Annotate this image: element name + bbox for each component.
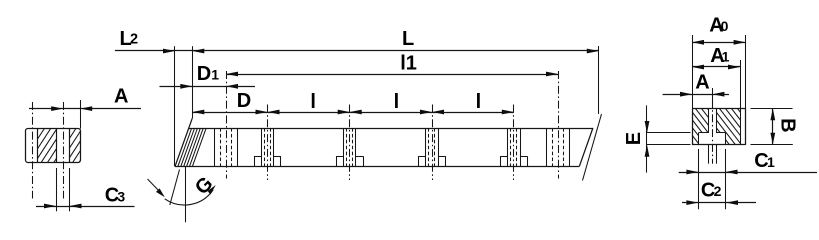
svg-text:A: A bbox=[114, 86, 128, 108]
svg-text:l: l bbox=[476, 91, 482, 113]
svg-text:B: B bbox=[777, 118, 799, 132]
svg-text:G: G bbox=[191, 173, 218, 200]
svg-text:3: 3 bbox=[117, 188, 125, 204]
svg-text:l: l bbox=[310, 91, 316, 113]
svg-text:D: D bbox=[197, 63, 211, 85]
svg-text:L: L bbox=[402, 28, 414, 50]
svg-text:0: 0 bbox=[721, 18, 729, 34]
svg-text:l: l bbox=[394, 91, 400, 113]
svg-text:1: 1 bbox=[767, 154, 775, 170]
svg-text:2: 2 bbox=[714, 183, 722, 199]
svg-text:l1: l1 bbox=[400, 53, 417, 75]
svg-text:2: 2 bbox=[130, 32, 138, 48]
svg-text:1: 1 bbox=[722, 49, 730, 65]
svg-text:E: E bbox=[623, 132, 645, 145]
svg-text:A: A bbox=[695, 71, 709, 93]
svg-text:1: 1 bbox=[211, 67, 219, 83]
svg-text:D: D bbox=[237, 90, 251, 112]
